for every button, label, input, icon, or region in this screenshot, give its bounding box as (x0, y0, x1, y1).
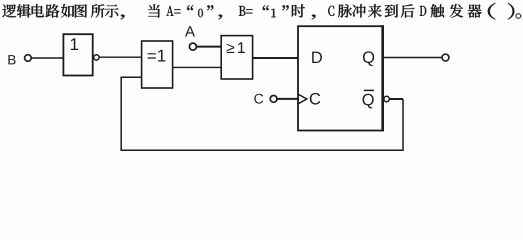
flip-flop right edge thick (381, 25, 384, 131)
NOT gate G1 box (63, 34, 92, 75)
node C terminal (270, 96, 277, 103)
wire A to OR gate (197, 46, 222, 48)
wire C to clock input (277, 98, 298, 100)
problem text line (2, 3, 521, 20)
NOT gate output bubble (94, 55, 99, 60)
XNOR gate G2 box (=1) (142, 41, 173, 88)
pin label Q (363, 51, 374, 66)
wire Qbar bubble to feedback (389, 98, 403, 100)
label =1 in XNOR gate (148, 50, 166, 62)
label B (8, 55, 15, 64)
wire XNOR output to OR gate (173, 66, 222, 68)
label 1 in NOT gate (71, 38, 78, 50)
node Q output terminal (442, 54, 449, 61)
pin label D (312, 52, 322, 63)
pin label C (310, 93, 321, 105)
clock edge triangle (299, 94, 307, 103)
feedback wire into XNOR lower input (121, 77, 403, 150)
pin label Qbar (363, 94, 374, 109)
node B terminal (25, 55, 32, 62)
label C (254, 94, 263, 104)
node A terminal (189, 43, 196, 50)
wire bubble to XNOR gate (99, 56, 141, 58)
wire B to NOT gate (31, 57, 63, 59)
label &#8805;1 in OR gate (227, 42, 245, 53)
D flip-flop U1 box (298, 26, 382, 130)
label A (185, 26, 195, 36)
Qbar overline (364, 89, 374, 91)
wire Q output (384, 57, 442, 59)
Qbar output bubble (384, 96, 389, 101)
wire OR output to D input (253, 57, 298, 59)
OR gate G3 box (>=1) (221, 36, 252, 79)
